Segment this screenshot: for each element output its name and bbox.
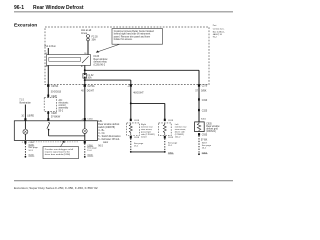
svg-text:(CJB) 96-2: (CJB) 96-2 — [94, 63, 106, 66]
connector pin C618 lower — [130, 136, 132, 138]
svg-text:control: control — [59, 104, 66, 107]
wire pin 4 to indicator lamp — [84, 121, 86, 129]
rear window defrost switch box — [14, 121, 97, 141]
svg-text:cator: cator — [103, 141, 108, 144]
annotation leader arrow to switch box — [61, 142, 64, 147]
connector pin C325 — [198, 109, 200, 111]
connector pin C935 lower — [198, 133, 200, 135]
svg-text:C619: C619 — [168, 137, 174, 139]
svg-text:(18C621): (18C621) — [206, 131, 216, 133]
pin square below box center — [84, 141, 86, 144]
connector pin C270A center — [84, 84, 86, 87]
svg-text:4 - B+: 4 - B+ — [98, 130, 105, 132]
svg-text:times: times — [81, 31, 88, 35]
wire left column down — [47, 87, 49, 98]
relay coil bar — [49, 57, 81, 61]
svg-text:Rear window defrost: Rear window defrost — [98, 123, 119, 126]
annotation callout box bottom — [43, 147, 79, 159]
svg-text:LB/RD: LB/RD — [27, 115, 34, 117]
wire illumination — [24, 105, 26, 121]
wire ground dashes right mirror — [130, 138, 132, 152]
relay switch contact — [82, 56, 89, 63]
svg-text:C270: C270 — [202, 86, 208, 88]
connector pin C618 — [130, 119, 132, 121]
svg-text:S401: S401 — [201, 118, 207, 120]
svg-text:124-2: 124-2 — [175, 137, 181, 139]
connector pin C264 top (B+ to switch) — [84, 87, 86, 121]
svg-text:15-1: 15-1 — [168, 145, 173, 147]
svg-text:C310: C310 — [202, 100, 208, 102]
svg-text:E51: E51 — [98, 121, 103, 123]
indicator lamp symbol — [82, 129, 87, 134]
footer rule — [14, 180, 233, 182]
svg-text:panel. Remove trim panel and k: panel. Remove trim panel and knee — [114, 35, 151, 38]
wire switch to internal bus — [48, 130, 50, 136]
fuse F1.32 symbol — [83, 73, 87, 78]
in-line component dashed box (pass through) — [44, 98, 56, 112]
connector pin C228 upper — [47, 95, 49, 97]
svg-text:switch (19D978): switch (19D978) — [98, 126, 115, 129]
dashed data line below switch box — [31, 141, 79, 143]
svg-text:C619: C619 — [168, 120, 174, 122]
wire ground dashes left — [24, 144, 26, 157]
svg-text:30-DG/LB: 30-DG/LB — [51, 91, 62, 93]
svg-text:DG/HT: DG/HT — [87, 91, 95, 93]
connector pin C228 lower — [47, 112, 49, 114]
svg-text:5 - Switch illumination: 5 - Switch illumination — [98, 135, 121, 138]
svg-text:Excursion; Super Duty Series F: Excursion; Super Duty Series F-250, F-35… — [14, 186, 98, 190]
pin square illumination — [24, 118, 26, 121]
fuse F2.30 30A symbol — [87, 35, 90, 41]
svg-text:Provides rear defogger on/off: Provides rear defogger on/off — [45, 148, 74, 151]
wire fuse F1.32 to connector C270A — [84, 78, 86, 84]
wire branch to left mirror — [131, 102, 165, 104]
svg-text:Central Junc.: Central Junc. — [213, 28, 225, 31]
junction node mirrors — [130, 102, 132, 104]
header rule — [14, 11, 233, 13]
svg-text:Part: Part — [213, 24, 217, 27]
defrost switch contact — [47, 122, 50, 130]
annotation callout box top — [112, 29, 163, 45]
svg-text:Rear Window Defrost: Rear Window Defrost — [33, 5, 84, 11]
svg-text:C618: C618 — [134, 137, 140, 139]
svg-text:30A: 30A — [92, 39, 97, 42]
relay K133 rear window defrost relay box — [47, 55, 91, 66]
svg-text:Excursion: Excursion — [14, 22, 37, 28]
right mirror heater element — [129, 123, 132, 136]
wire ground dashes grid — [198, 136, 200, 154]
left exterior mirror heater dashed box — [159, 123, 172, 136]
svg-text:96-1: 96-1 — [14, 5, 24, 11]
svg-text:A/C: A/C — [59, 99, 63, 102]
svg-text:57-BK/W: 57-BK/W — [51, 117, 61, 119]
connector pin C619 — [164, 119, 166, 121]
svg-text:71-2: 71-2 — [19, 100, 24, 102]
Central Junction Box CJB dashed outline — [45, 27, 209, 85]
svg-text:57-BK: 57-BK — [201, 139, 208, 141]
svg-text:15-1: 15-1 — [134, 146, 139, 148]
svg-text:C325: C325 — [202, 110, 208, 112]
wire down to junction — [130, 87, 132, 121]
illumination lamp symbol — [23, 129, 28, 134]
wire mirror feed to right — [85, 79, 131, 81]
wire main feed drop to C270 — [198, 70, 200, 84]
wire to switch — [47, 111, 49, 121]
svg-text:Hot in Run: Hot in Run — [45, 45, 57, 48]
svg-text:C618: C618 — [134, 120, 140, 122]
wire relay pin 87 down — [84, 65, 86, 73]
wire inside to illumination lamp — [24, 121, 26, 130]
connector pin C270A left (relay coil output) — [47, 65, 49, 84]
rear window defrost grid box — [195, 122, 205, 132]
svg-text:bolster for access.: bolster for access. — [114, 38, 133, 41]
svg-text:C270A: C270A — [88, 85, 95, 88]
pin square below box left — [24, 141, 26, 144]
connector pin C310 — [198, 98, 200, 100]
svg-text:C270A: C270A — [51, 85, 58, 88]
wire mirror feed drop — [130, 80, 132, 84]
svg-text:driver door module (DDM): driver door module (DDM) — [45, 153, 71, 156]
svg-text:55-2: 55-2 — [59, 110, 64, 112]
annotation leader arrow to relay — [98, 44, 120, 52]
svg-text:Customer Access Relay Center l: Customer Access Relay Center located — [114, 30, 155, 33]
svg-text:15-1: 15-1 — [202, 148, 207, 150]
internal wire to indicator — [49, 135, 85, 137]
svg-text:F1.32: F1.32 — [88, 75, 95, 77]
wire lamp to box bottom — [24, 134, 26, 140]
svg-text:electronic: electronic — [59, 102, 70, 105]
svg-text:30A: 30A — [88, 77, 93, 80]
pin square at switch box top — [47, 118, 49, 121]
wire main feed to right — [85, 69, 199, 71]
wire ground dashes left mirror — [164, 138, 166, 152]
svg-text:Illumination: Illumination — [19, 101, 31, 104]
svg-text:10-3: 10-3 — [28, 150, 33, 152]
svg-text:4A067) 96: 4A067) 96 — [213, 33, 223, 36]
ground bus wire — [131, 151, 165, 153]
svg-text:behind right hand side of inst: behind right hand side of instrument — [114, 33, 151, 36]
right exterior mirror heater dashed box — [127, 123, 140, 136]
svg-text:Rear window: Rear window — [206, 125, 220, 128]
junction dot feed to grid — [84, 69, 86, 71]
wire ground dashes center — [84, 144, 86, 157]
defrost grid element — [197, 122, 201, 132]
wire down to C310 — [198, 87, 200, 122]
connector pin C270 — [198, 84, 200, 87]
svg-text:124-3: 124-3 — [141, 137, 147, 139]
svg-text:request signal input to the: request signal input to the — [45, 151, 71, 154]
svg-text:C935: C935 — [202, 135, 208, 137]
connector pin C270A mirror feed — [130, 84, 132, 87]
svg-text:46-DG/HT: 46-DG/HT — [133, 93, 144, 95]
wire fuse F2.30 to relay pin 30 — [87, 41, 89, 55]
svg-text:O/BK: O/BK — [201, 90, 207, 92]
wire indicator to box bottom — [84, 134, 86, 141]
svg-text:C264: C264 — [87, 118, 93, 120]
svg-text:3 - On: 3 - On — [98, 133, 105, 135]
connector pin C619 lower — [164, 136, 166, 138]
junction dot feed to mirrors — [84, 79, 86, 81]
svg-text:96-2: 96-2 — [98, 146, 103, 148]
left mirror heater element — [163, 123, 166, 136]
wire Hot in Run to relay coil pin 86 — [47, 48, 49, 55]
svg-text:6 - Defroster Off indi-: 6 - Defroster Off indi- — [98, 138, 120, 141]
svg-text:C228: C228 — [51, 113, 57, 115]
svg-text:defrost grid: defrost grid — [206, 128, 218, 131]
